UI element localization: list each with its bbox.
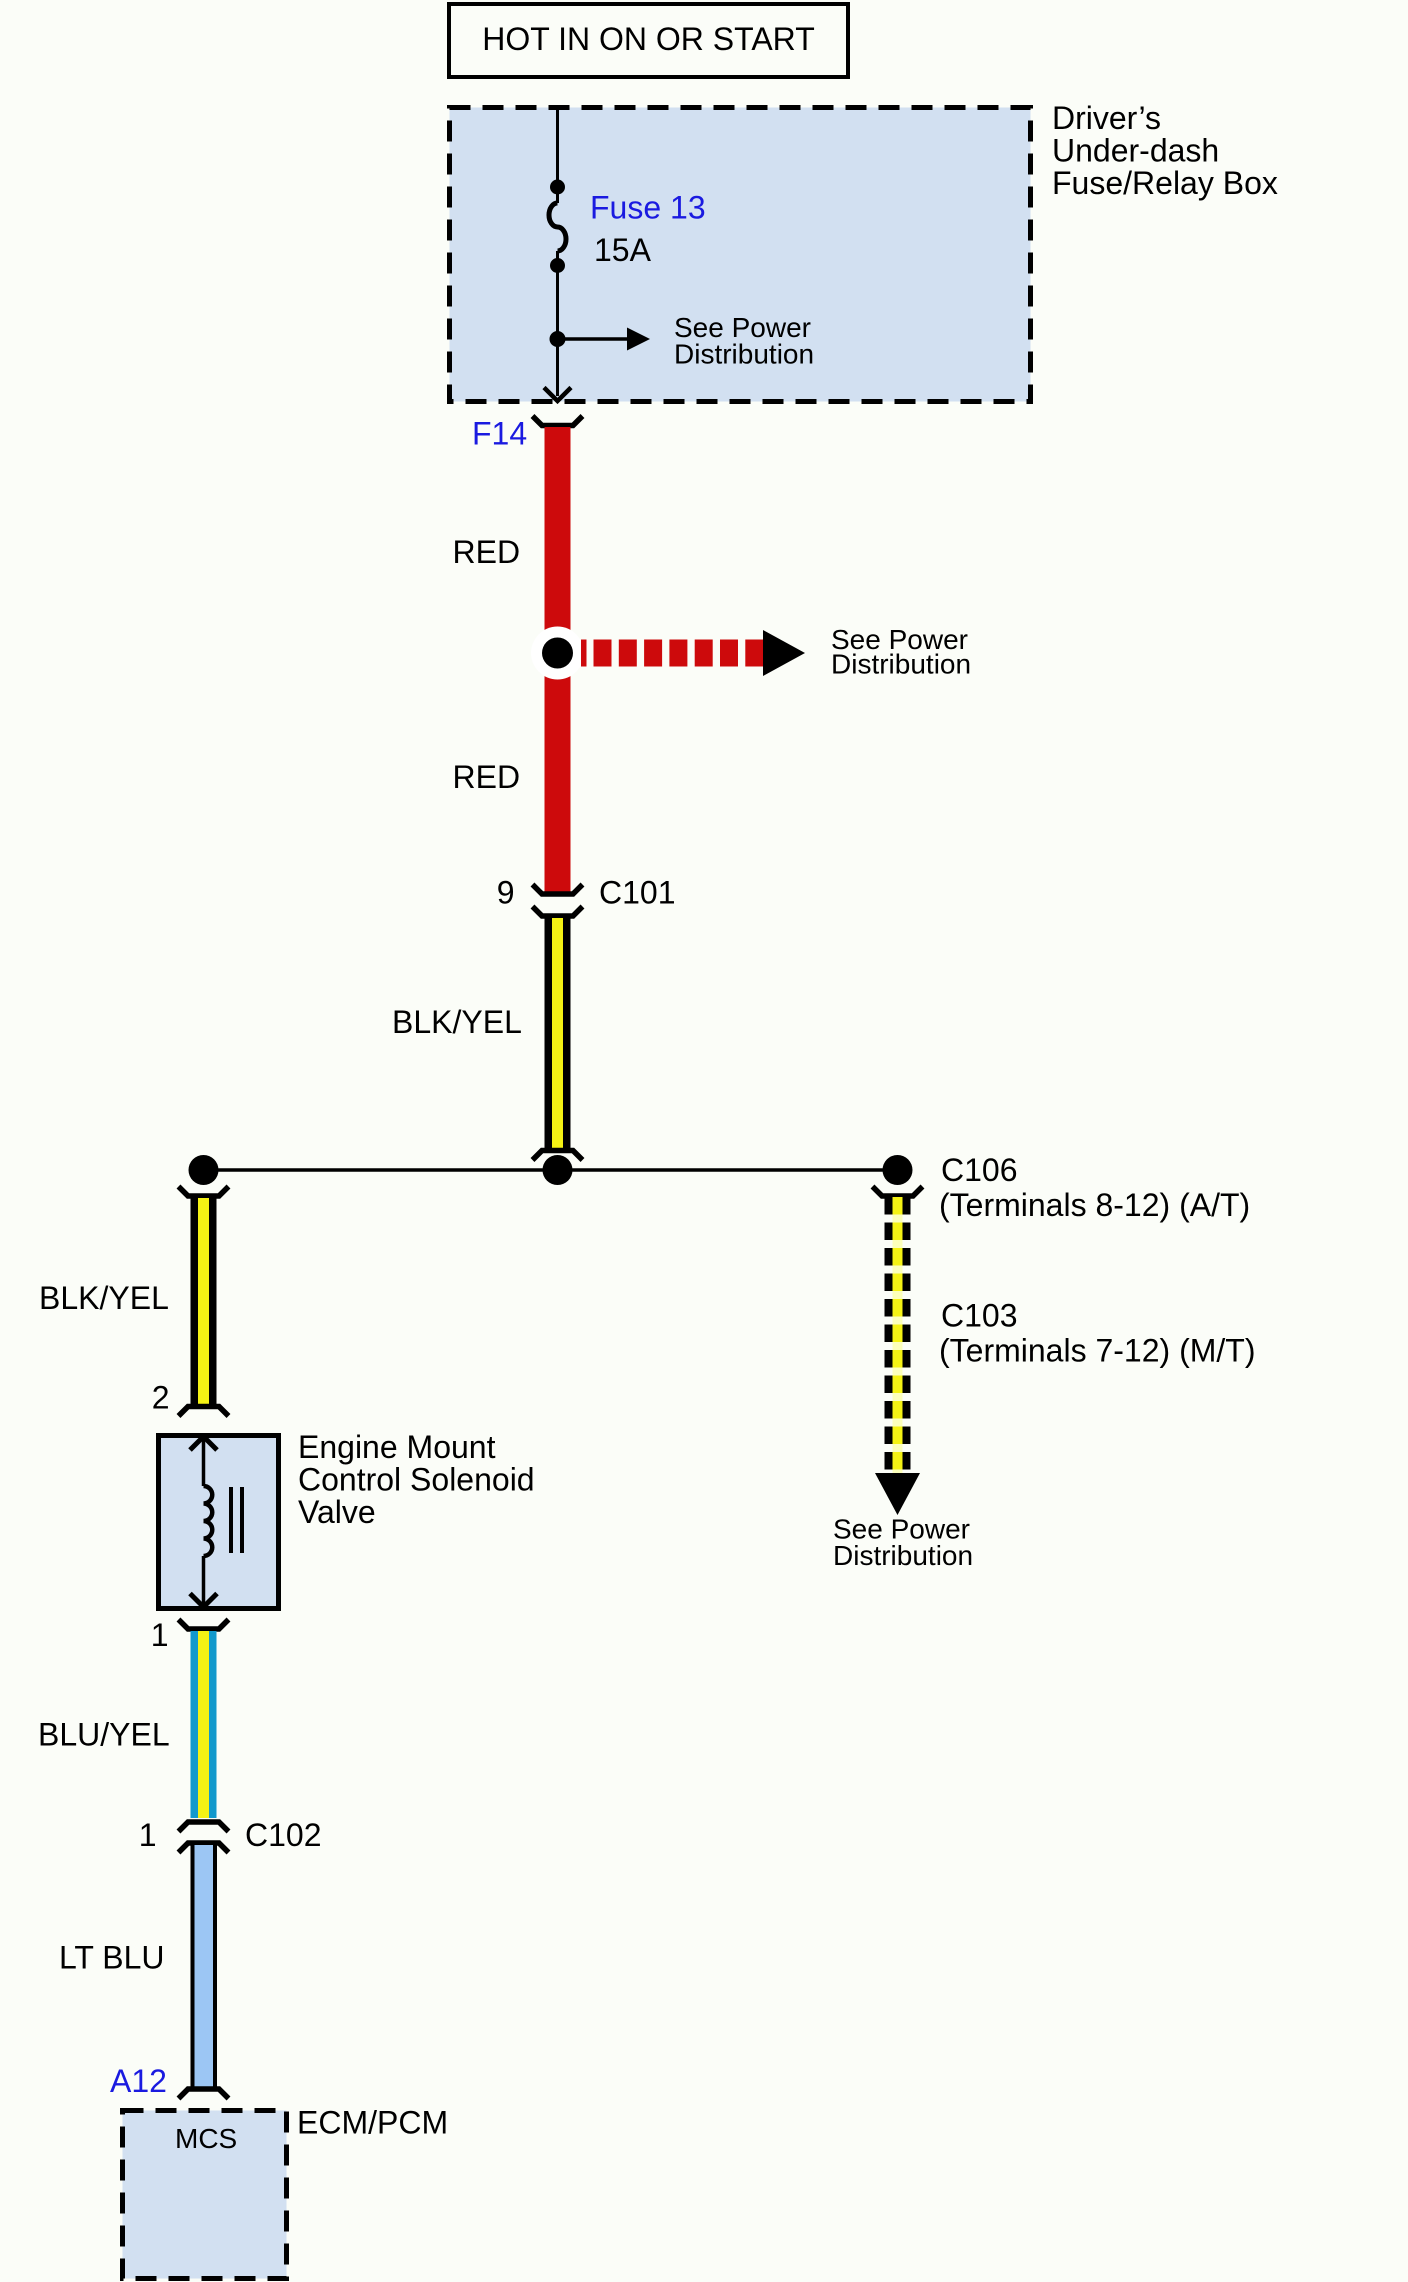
svg-text:MCS: MCS (175, 2123, 237, 2154)
svg-text:BLK/YEL: BLK/YEL (392, 1004, 522, 1040)
svg-text:15A: 15A (594, 232, 652, 268)
svg-text:Valve: Valve (298, 1494, 376, 1530)
svg-text:Fuse 13: Fuse 13 (590, 190, 706, 226)
svg-text:C106: C106 (941, 1152, 1018, 1188)
svg-text:A12: A12 (110, 2063, 167, 2099)
svg-text:C101: C101 (599, 875, 676, 911)
svg-text:9: 9 (497, 875, 515, 911)
svg-text:(Terminals 7-12) (M/T): (Terminals 7-12) (M/T) (939, 1333, 1255, 1369)
svg-text:Distribution: Distribution (674, 339, 814, 370)
svg-text:Distribution: Distribution (831, 649, 971, 680)
svg-text:Distribution: Distribution (833, 1540, 973, 1571)
svg-text:Fuse/Relay Box: Fuse/Relay Box (1052, 165, 1278, 201)
svg-text:1: 1 (139, 1817, 157, 1853)
svg-text:BLU/YEL: BLU/YEL (38, 1717, 170, 1753)
svg-text:(Terminals 8-12) (A/T): (Terminals 8-12) (A/T) (939, 1187, 1250, 1223)
svg-text:C103: C103 (941, 1298, 1018, 1334)
svg-text:RED: RED (453, 759, 521, 795)
svg-text:HOT IN ON OR START: HOT IN ON OR START (482, 21, 814, 57)
svg-text:2: 2 (152, 1380, 170, 1416)
svg-text:RED: RED (453, 534, 521, 570)
svg-text:Under-dash: Under-dash (1052, 133, 1219, 169)
svg-text:ECM/PCM: ECM/PCM (297, 2105, 448, 2141)
svg-text:LT BLU: LT BLU (59, 1940, 165, 1976)
svg-text:BLK/YEL: BLK/YEL (39, 1280, 169, 1316)
svg-text:Engine Mount: Engine Mount (298, 1429, 496, 1465)
svg-text:1: 1 (151, 1617, 169, 1653)
svg-text:F14: F14 (472, 416, 527, 452)
svg-text:Driver’s: Driver’s (1052, 100, 1161, 136)
svg-text:C102: C102 (245, 1817, 322, 1853)
svg-text:Control Solenoid: Control Solenoid (298, 1462, 535, 1498)
